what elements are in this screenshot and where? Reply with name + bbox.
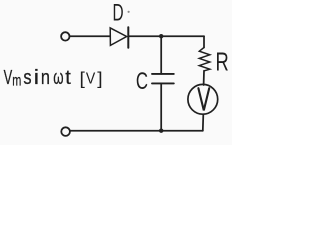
- wire capacitor branch upper: [160, 36, 162, 74]
- voltmeter V: [188, 84, 218, 114]
- svg-text:ω: ω: [53, 66, 63, 88]
- svg-text:]: ]: [97, 68, 102, 88]
- svg-text:V: V: [86, 70, 95, 88]
- source terminal top: [61, 32, 69, 40]
- svg-text:[: [: [80, 68, 85, 88]
- source terminal bottom: [61, 127, 70, 136]
- diode D: [110, 28, 126, 46]
- resistor R: [199, 48, 210, 71]
- svg-text:t: t: [65, 67, 71, 89]
- svg-text:D: D: [113, 0, 124, 26]
- wire top-middle (diode cathode to right corner): [128, 35, 204, 37]
- svg-text:m: m: [12, 71, 21, 88]
- wire bottom: [70, 130, 203, 132]
- svg-text:s: s: [23, 65, 31, 88]
- svg-text:i: i: [34, 66, 39, 89]
- svg-text:n: n: [41, 65, 50, 88]
- node top junction: [159, 34, 163, 38]
- wire capacitor branch lower: [160, 83, 162, 130]
- wire resistor to voltmeter: [203, 71, 205, 85]
- wire right branch top: [203, 36, 205, 47]
- wire voltmeter to bottom corner: [202, 115, 205, 131]
- node bottom junction: [159, 129, 163, 133]
- capacitor C: [152, 73, 174, 75]
- scan dot artifact: [128, 11, 130, 13]
- svg-text:R: R: [216, 47, 229, 76]
- svg-text:C: C: [136, 68, 148, 95]
- svg-text:V: V: [4, 66, 13, 89]
- wire top-left (terminal to diode anode): [70, 35, 110, 37]
